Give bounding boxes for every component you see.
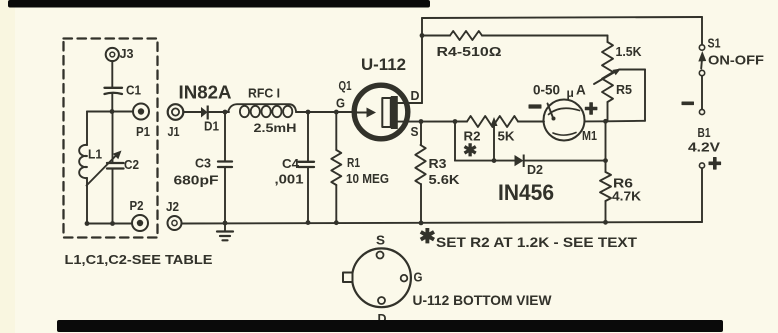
svg-text:G: G	[414, 270, 423, 285]
svg-text:D1: D1	[204, 119, 219, 134]
svg-text:P2: P2	[130, 198, 144, 213]
svg-text:U-112 BOTTOM VIEW: U-112 BOTTOM VIEW	[413, 293, 552, 308]
svg-text:S1: S1	[708, 36, 721, 51]
svg-text:S: S	[411, 124, 419, 139]
svg-text:IN456: IN456	[498, 180, 554, 205]
svg-text:,001: ,001	[275, 173, 304, 187]
svg-text:4.2V: 4.2V	[688, 140, 720, 155]
svg-text:L1: L1	[88, 147, 102, 162]
svg-text:✱: ✱	[419, 226, 436, 248]
svg-text:D: D	[411, 88, 420, 103]
svg-text:IN82A: IN82A	[179, 83, 232, 103]
svg-text:L1,C1,C2-SEE TABLE: L1,C1,C2-SEE TABLE	[65, 253, 213, 267]
svg-text:5K: 5K	[498, 130, 515, 144]
svg-text:RFC I: RFC I	[248, 86, 280, 101]
svg-text:Q1: Q1	[339, 78, 352, 93]
svg-text:J1: J1	[168, 124, 180, 139]
svg-text:5.6K: 5.6K	[429, 173, 460, 187]
svg-text:J2: J2	[166, 199, 179, 214]
svg-text:G: G	[336, 96, 345, 111]
svg-text:D2: D2	[527, 163, 543, 177]
svg-text:4.7K: 4.7K	[612, 190, 641, 204]
svg-text:P1: P1	[136, 124, 150, 139]
svg-text:✱: ✱	[463, 141, 477, 160]
svg-text:10 MEG: 10 MEG	[346, 172, 389, 186]
svg-text:R4-510Ω: R4-510Ω	[437, 44, 502, 59]
svg-text:R1: R1	[347, 156, 360, 170]
svg-text:R6: R6	[613, 177, 633, 191]
svg-text:0-50: 0-50	[533, 83, 560, 98]
svg-text:R3: R3	[429, 157, 447, 171]
svg-text:ON-OFF: ON-OFF	[708, 54, 764, 68]
svg-text:C2: C2	[124, 157, 139, 172]
svg-text:S: S	[376, 233, 385, 248]
svg-text:680pF: 680pF	[174, 174, 219, 188]
svg-text:μ: μ	[567, 86, 574, 100]
svg-text:M1: M1	[582, 129, 597, 143]
svg-text:A: A	[576, 83, 586, 98]
svg-text:C1: C1	[126, 83, 141, 98]
svg-text:2.5mH: 2.5mH	[254, 121, 297, 135]
svg-text:U-112: U-112	[361, 55, 406, 74]
svg-text:SET R2 AT 1.2K - SEE TEXT: SET R2 AT 1.2K - SEE TEXT	[436, 234, 637, 250]
svg-text:B1: B1	[698, 125, 711, 140]
svg-text:C4: C4	[282, 157, 299, 171]
svg-text:R5: R5	[616, 82, 632, 97]
svg-text:J3: J3	[120, 46, 134, 61]
svg-text:1.5K: 1.5K	[616, 44, 643, 59]
svg-text:C3: C3	[195, 157, 211, 171]
